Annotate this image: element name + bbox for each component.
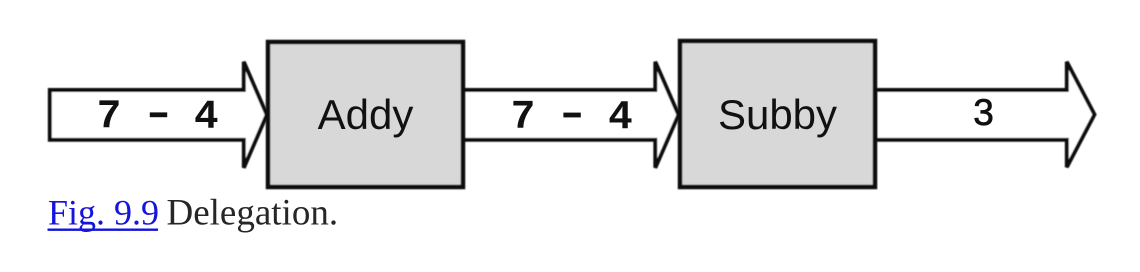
svg-text:Fig. 9.9: Fig. 9.9 <box>48 193 159 233</box>
arrow input 7-4 <box>50 62 267 168</box>
svg-text:Subby: Subby <box>718 91 837 138</box>
label 7 - 4 on middle arrow <box>511 95 633 141</box>
arrow output 3 <box>875 62 1095 167</box>
svg-text:3: 3 <box>973 92 994 133</box>
svg-text:7: 7 <box>97 95 122 141</box>
svg-text:7: 7 <box>511 95 536 141</box>
svg-text:Addy: Addy <box>318 91 414 138</box>
caption Fig. 9.9 Delegation. <box>48 193 339 234</box>
svg-text:4: 4 <box>608 95 633 141</box>
arrow Addy-to-Subby 7-4 <box>461 62 679 168</box>
svg-text:4: 4 <box>194 95 219 141</box>
svg-text:Delegation.: Delegation. <box>167 193 339 234</box>
block Subby <box>680 41 875 187</box>
block Addy <box>268 42 463 187</box>
label 7 - 4 on input arrow <box>97 95 219 141</box>
